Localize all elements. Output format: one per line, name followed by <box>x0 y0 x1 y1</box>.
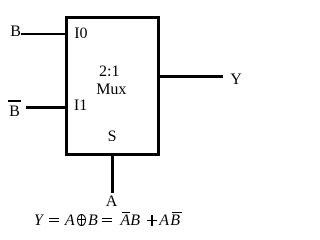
wire S select (vertical, below box) <box>111 156 114 193</box>
mux U1 body (2:1 multiplexer box) <box>65 16 160 157</box>
wire B-bar to pin I1 <box>26 106 66 109</box>
node Y (output label) <box>230 72 242 88</box>
node B (top-left input label) <box>10 24 21 40</box>
formula Y = A xor B = AbarB + ABbar <box>0 0 252 1</box>
label 2:1 (line 1 of box title) <box>99 64 119 80</box>
pin label S (select input) <box>108 129 117 145</box>
pin label I0 <box>74 26 87 42</box>
label Mux (line 2 of box title) <box>96 82 126 98</box>
node A (select signal label) <box>106 194 118 210</box>
wire Y output <box>160 75 223 78</box>
wire B to pin I0 <box>21 33 65 36</box>
pin label I1 <box>74 98 87 114</box>
node B-bar (lower-left input label) <box>9 104 20 120</box>
overbar of node B-bar <box>8 100 22 102</box>
